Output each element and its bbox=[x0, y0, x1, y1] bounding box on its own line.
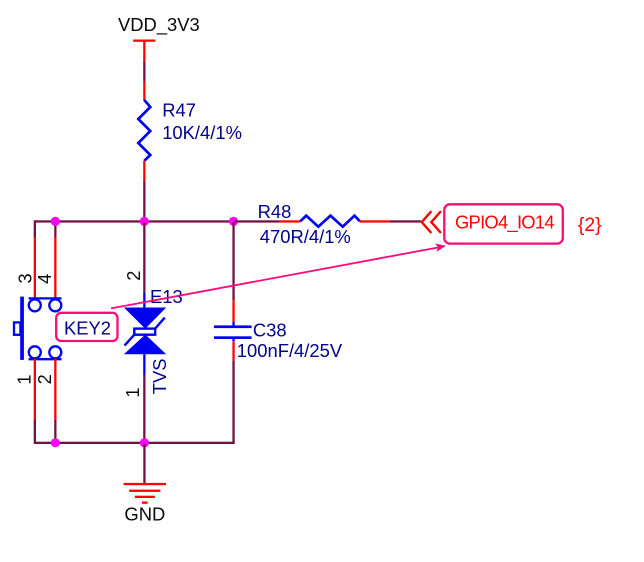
svg-text:KEY2: KEY2 bbox=[64, 317, 111, 338]
resistor R47 bbox=[138, 100, 150, 161]
svg-text:10K/4/1%: 10K/4/1% bbox=[162, 122, 242, 143]
off-page connector box GPIO4_IO14 bbox=[444, 204, 563, 243]
junction top node at pin4 bbox=[51, 217, 60, 226]
TVS diode E13 bbox=[124, 293, 166, 375]
svg-text:GND: GND bbox=[124, 504, 165, 525]
junction top node at C38/R48 bbox=[229, 217, 238, 226]
junction bottom node at GND bbox=[140, 438, 149, 447]
wire R47 to top node bbox=[143, 181, 145, 221]
capacitor C38 bbox=[214, 322, 252, 341]
pin R48.2 bbox=[360, 220, 390, 222]
svg-text:4: 4 bbox=[35, 274, 55, 284]
svg-text:470R/4/1%: 470R/4/1% bbox=[260, 226, 351, 247]
wire VDD_3V3 to R47 bbox=[143, 62, 145, 82]
wire top node to TVS bbox=[143, 223, 145, 293]
svg-text:2: 2 bbox=[124, 271, 144, 281]
pin R47.1 bbox=[143, 81, 145, 101]
wire top node to R48 bbox=[235, 220, 279, 222]
junction top node at R47/TVS bbox=[140, 217, 149, 226]
pin KEY2.4 bbox=[54, 237, 56, 299]
wire KEY2 pin1 to bottom node bbox=[34, 420, 36, 444]
svg-text:R48: R48 bbox=[258, 201, 292, 222]
svg-text:1: 1 bbox=[123, 387, 143, 397]
svg-text:100nF/4/25V: 100nF/4/25V bbox=[237, 340, 343, 361]
svg-text:3: 3 bbox=[15, 273, 35, 283]
wire top node horizontal bbox=[35, 220, 235, 222]
pin R47.2 bbox=[143, 161, 145, 181]
svg-text:TVS: TVS bbox=[149, 358, 170, 394]
ground GND bbox=[124, 483, 167, 504]
junction bottom node at pin2 bbox=[51, 438, 60, 447]
wire top node to C38 bbox=[232, 223, 234, 301]
svg-text:R47: R47 bbox=[162, 99, 196, 120]
annotation arrow KEY2 to GPIO4_IO14 bbox=[111, 244, 446, 309]
pin KEY2.2 bbox=[54, 359, 56, 421]
svg-text:C38: C38 bbox=[253, 319, 287, 340]
pin C38.2 bbox=[232, 341, 234, 360]
wire bottom node horizontal bbox=[35, 442, 235, 444]
resistor R48 bbox=[300, 216, 360, 227]
svg-text:1: 1 bbox=[15, 375, 35, 385]
off-page connector chevrons bbox=[422, 211, 441, 233]
svg-text:GPIO4_IO14: GPIO4_IO14 bbox=[455, 212, 554, 234]
pin KEY2.1 bbox=[34, 359, 36, 421]
wire TVS to bottom node bbox=[143, 375, 145, 444]
wire left drop to KEY2 pin3 bbox=[34, 220, 36, 237]
switch KEY2 bbox=[14, 297, 62, 360]
pin KEY2.3 bbox=[34, 237, 36, 299]
wire KEY2 pin2 to bottom node bbox=[54, 420, 56, 442]
pin C38.1 bbox=[232, 300, 234, 322]
svg-text:{2}: {2} bbox=[578, 214, 602, 236]
wire bottom node to GND bbox=[143, 444, 145, 483]
svg-text:VDD_3V3: VDD_3V3 bbox=[118, 14, 200, 36]
power symbol VDD_3V3 bbox=[118, 14, 200, 62]
svg-text:2: 2 bbox=[35, 374, 55, 384]
wire C38 to bottom node bbox=[232, 360, 234, 444]
wire drop to KEY2 pin4 bbox=[54, 223, 56, 237]
wire R48 to off-page connector bbox=[390, 220, 421, 222]
pin R48.1 bbox=[279, 220, 300, 222]
reference box KEY2 bbox=[56, 313, 117, 341]
